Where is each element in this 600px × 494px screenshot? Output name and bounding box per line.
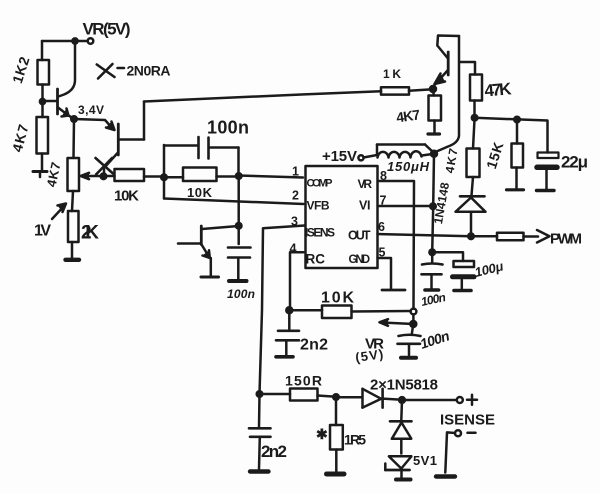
svg-text:100μ: 100μ — [473, 258, 505, 280]
svg-text:100n: 100n — [207, 118, 249, 138]
svg-text:1V: 1V — [34, 223, 51, 240]
svg-text:ISENSE: ISENSE — [440, 412, 495, 429]
svg-text:6: 6 — [378, 220, 385, 234]
svg-text:10K: 10K — [321, 290, 354, 307]
svg-text:47K: 47K — [484, 79, 513, 100]
svg-text:OUT: OUT — [348, 229, 371, 243]
svg-text:PWM: PWM — [550, 231, 582, 248]
svg-text:1R5: 1R5 — [344, 432, 366, 448]
svg-text:VI: VI — [359, 199, 371, 213]
svg-text:VR(5V): VR(5V) — [83, 20, 131, 39]
svg-text:2×1N5818: 2×1N5818 — [370, 377, 438, 394]
svg-text:1K: 1K — [383, 67, 401, 81]
svg-text:2n2: 2n2 — [261, 442, 287, 461]
svg-text:RC: RC — [306, 252, 326, 267]
svg-text:7: 7 — [380, 194, 387, 208]
svg-text:4K7: 4K7 — [442, 147, 460, 174]
svg-text:10K: 10K — [187, 185, 213, 200]
svg-text:5V1: 5V1 — [413, 453, 437, 468]
svg-text:3: 3 — [291, 215, 298, 229]
svg-text:+15V: +15V — [322, 148, 357, 165]
svg-text:2K: 2K — [81, 223, 99, 244]
svg-text:3,4V: 3,4V — [78, 103, 104, 117]
svg-text:4K7: 4K7 — [9, 122, 32, 153]
svg-text:22μ: 22μ — [561, 153, 588, 172]
svg-text:COMP: COMP — [307, 178, 333, 190]
svg-text:5: 5 — [379, 246, 386, 260]
svg-text:2: 2 — [292, 189, 299, 203]
svg-text:GND: GND — [349, 254, 371, 266]
svg-text:100n: 100n — [227, 287, 255, 301]
svg-text:2N0RA: 2N0RA — [127, 63, 171, 79]
svg-text:100n: 100n — [420, 290, 447, 309]
svg-text:150μH: 150μH — [387, 159, 430, 174]
svg-text:4K7: 4K7 — [395, 106, 421, 125]
svg-text:15K: 15K — [483, 140, 507, 171]
svg-text:4: 4 — [290, 242, 297, 256]
svg-text:1K2: 1K2 — [9, 54, 33, 85]
svg-text:150R: 150R — [285, 373, 322, 389]
svg-text:100n: 100n — [418, 327, 451, 351]
svg-text:ISENS: ISENS — [305, 226, 335, 240]
svg-text:VFB: VFB — [307, 199, 330, 213]
svg-text:1: 1 — [292, 165, 299, 179]
svg-text:✱: ✱ — [316, 426, 328, 442]
svg-text:4K7: 4K7 — [44, 161, 64, 189]
svg-text:10K: 10K — [114, 188, 139, 205]
svg-text:2n2: 2n2 — [300, 337, 328, 354]
svg-text:(5V): (5V) — [354, 346, 384, 365]
svg-text:8: 8 — [380, 169, 387, 183]
svg-text:VR: VR — [358, 177, 373, 191]
